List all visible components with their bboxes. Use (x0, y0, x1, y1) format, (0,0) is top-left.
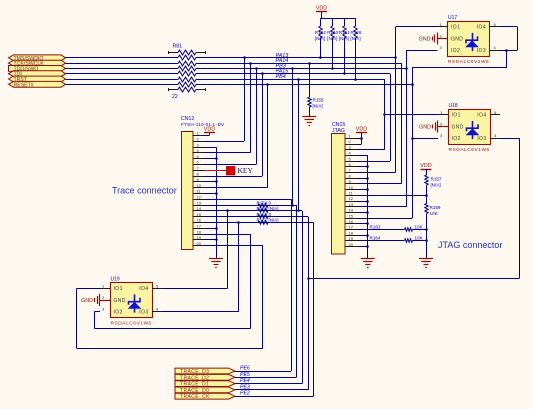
svg-text:IO2: IO2 (451, 48, 460, 54)
svg-text:R152: R152 (315, 30, 326, 35)
svg-text:10: 10 (197, 183, 202, 188)
svg-text:[N/A]: [N/A] (339, 36, 349, 41)
svg-text:R157: R157 (431, 177, 442, 182)
svg-text:RSDALC6V1W5: RSDALC6V1W5 (449, 147, 490, 153)
svg-text:R164: R164 (370, 236, 381, 241)
svg-text:R154 0: R154 0 (257, 200, 272, 205)
svg-text:VDD: VDD (316, 5, 327, 11)
svg-text:IO3: IO3 (477, 136, 486, 142)
svg-text:R163: R163 (370, 224, 381, 229)
svg-text:10K: 10K (415, 224, 424, 229)
svg-text:CN15: CN15 (332, 122, 345, 128)
svg-text:IO4: IO4 (477, 113, 486, 119)
svg-text:17: 17 (349, 225, 354, 230)
svg-text:10: 10 (349, 185, 354, 190)
svg-text:R155: R155 (313, 98, 324, 103)
svg-text:PE5: PE5 (240, 372, 250, 378)
svg-text:R156 [N/A]: R156 [N/A] (257, 206, 279, 211)
svg-text:15: 15 (349, 213, 354, 218)
svg-text:U18: U18 (449, 103, 458, 109)
svg-text:VDD: VDD (204, 126, 215, 132)
svg-text:KEY: KEY (238, 166, 254, 175)
svg-text:IO4: IO4 (139, 286, 148, 292)
svg-text:VDD: VDD (356, 126, 367, 132)
svg-text:IO1: IO1 (114, 286, 123, 292)
svg-text:17: 17 (197, 224, 202, 229)
svg-text:IO1: IO1 (451, 25, 460, 31)
svg-text:RSDALC6V1W5: RSDALC6V1W5 (111, 320, 152, 326)
svg-text:RSDALC6V1W5: RSDALC6V1W5 (448, 59, 489, 65)
svg-text:R126: R126 (350, 30, 361, 35)
svg-text:IO3: IO3 (477, 48, 486, 54)
svg-text:18: 18 (197, 229, 202, 234)
svg-text:R151: R151 (339, 30, 350, 35)
svg-text:PE6: PE6 (240, 366, 250, 372)
svg-text:GND: GND (452, 124, 464, 130)
svg-text:GND: GND (419, 125, 431, 131)
svg-text:IO4: IO4 (477, 25, 486, 31)
svg-text:R81: R81 (173, 44, 183, 50)
svg-text:[N/A]: [N/A] (350, 36, 360, 41)
svg-text:U19: U19 (111, 277, 120, 283)
svg-text:22: 22 (172, 94, 178, 100)
svg-text:GND: GND (451, 36, 463, 42)
svg-text:GND: GND (81, 298, 93, 304)
svg-text:19: 19 (197, 235, 202, 240)
svg-text:PE3: PE3 (240, 384, 250, 390)
svg-text:12: 12 (349, 196, 354, 201)
svg-text:19: 19 (349, 236, 354, 241)
svg-text:R160: R160 (327, 30, 338, 35)
svg-text:10K: 10K (430, 211, 439, 216)
svg-text:12: 12 (197, 195, 202, 200)
svg-text:IO2: IO2 (114, 309, 123, 315)
svg-text:14: 14 (197, 206, 202, 211)
svg-text:GND: GND (114, 298, 126, 304)
svg-text:13: 13 (349, 202, 354, 207)
svg-text:JTAG connector: JTAG connector (438, 240, 502, 250)
svg-text:[N/A]: [N/A] (313, 104, 323, 109)
svg-text:18: 18 (349, 230, 354, 235)
svg-text:JTAG: JTAG (332, 128, 345, 134)
svg-text:10K: 10K (415, 236, 424, 241)
svg-text:GND: GND (419, 37, 431, 43)
svg-text:[N/A]: [N/A] (315, 36, 325, 41)
svg-text:13: 13 (197, 200, 202, 205)
svg-text:16: 16 (197, 218, 202, 223)
svg-text:PE4: PE4 (240, 378, 250, 384)
svg-text:20: 20 (197, 241, 202, 246)
svg-text:15: 15 (197, 212, 202, 217)
svg-text:IO2: IO2 (452, 136, 461, 142)
svg-text:[N/A]: [N/A] (327, 36, 337, 41)
svg-text:CN12: CN12 (181, 116, 194, 122)
svg-text:R158 0: R158 0 (257, 212, 272, 217)
svg-text:PE2: PE2 (240, 391, 250, 397)
svg-text:RESET#: RESET# (14, 82, 34, 88)
svg-text:PB4: PB4 (276, 74, 286, 80)
svg-text:14: 14 (349, 208, 354, 213)
svg-text:VDD: VDD (420, 163, 431, 169)
svg-text:R159: R159 (430, 205, 441, 210)
svg-text:IO1: IO1 (452, 113, 461, 119)
svg-text:IO3: IO3 (139, 309, 148, 315)
svg-text:TRACE_CK: TRACE_CK (180, 394, 210, 400)
svg-text:16: 16 (349, 219, 354, 224)
svg-text:U17: U17 (448, 15, 457, 21)
svg-text:20: 20 (349, 242, 354, 247)
svg-text:[N/A]: [N/A] (431, 183, 441, 188)
svg-text:R161 [N/A]: R161 [N/A] (257, 218, 279, 223)
svg-text:Trace connector: Trace connector (112, 186, 177, 196)
